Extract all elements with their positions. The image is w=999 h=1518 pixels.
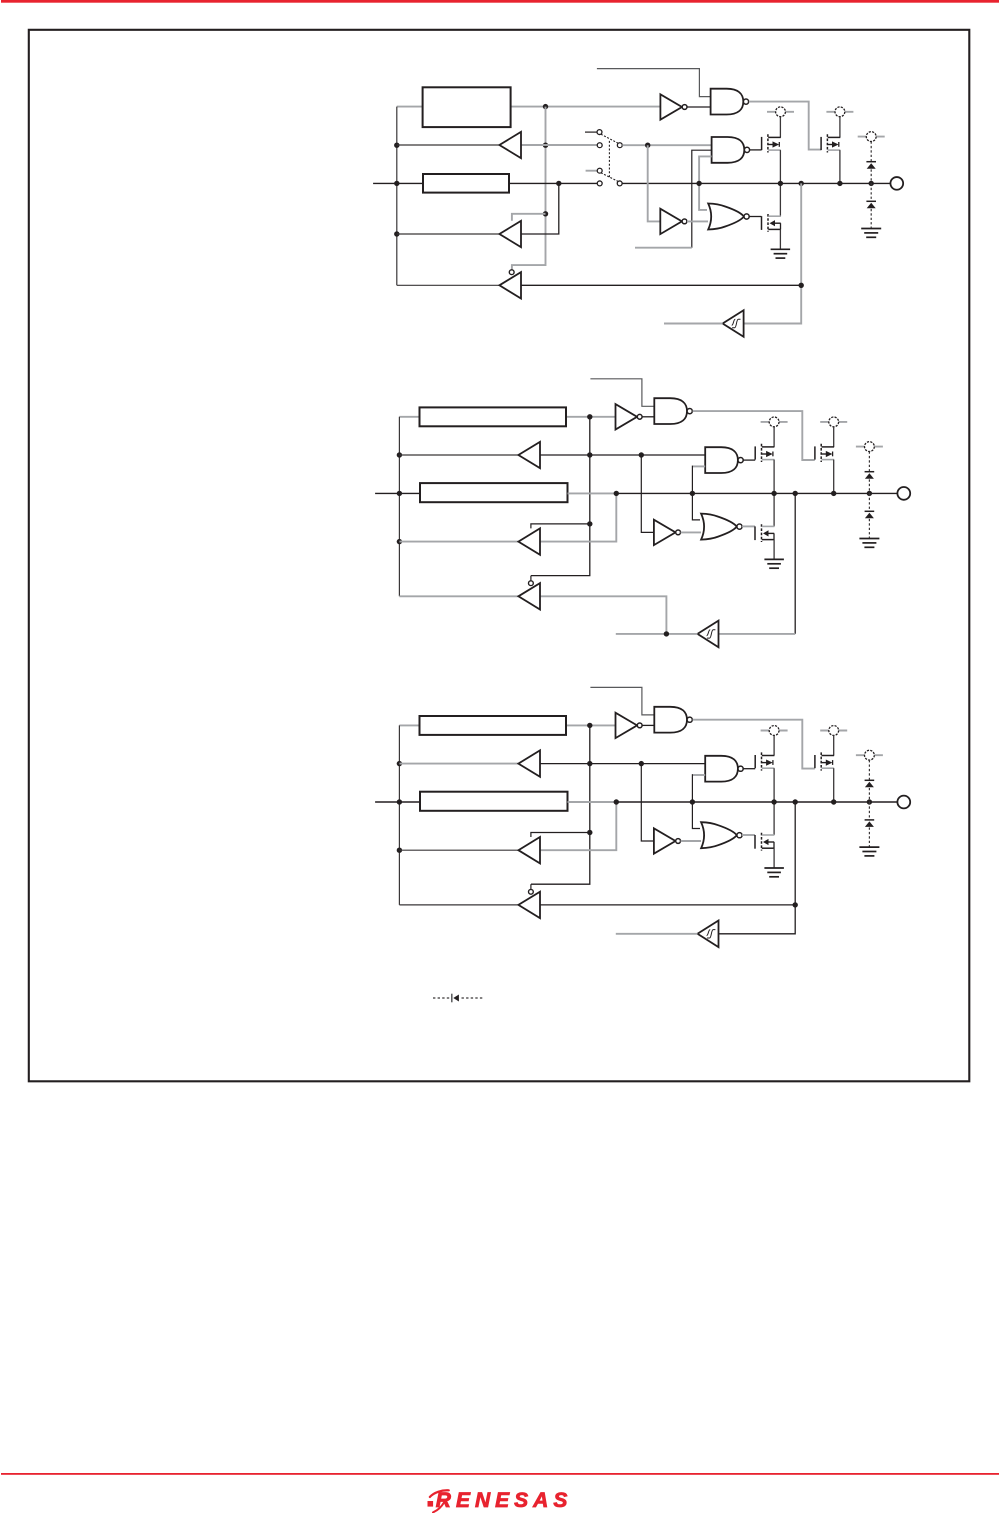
wire: C3 pMOS Q2 drain to node <box>833 768 835 802</box>
wire: C1 NAND2 input2 rail <box>692 150 712 248</box>
diode C3-Db (to GND) <box>865 820 875 827</box>
wire: C1 buffer1 input to switch <box>521 144 597 146</box>
node: C2 junction data/buffer2 tap <box>614 491 619 496</box>
wire: C2 output-enable line (top) <box>590 379 654 407</box>
wire: C1 buffer3 input (pin feedback) <box>521 284 801 286</box>
node: C3 left rail junction b <box>397 799 402 804</box>
wire: C1 buffer2 enable <box>512 214 546 221</box>
power symbol VCC C3-D (protection) <box>856 750 883 760</box>
input buffer C1-B2 <box>499 221 521 247</box>
pMOS transistor C3-Q1 <box>755 752 774 770</box>
wire: C1 NOR output to nMOS gate <box>749 216 761 218</box>
ground C2-D (protection) <box>859 539 879 548</box>
wire: C2 data line (left) <box>375 492 420 494</box>
pin pad C1 I/O port <box>890 177 903 190</box>
inverter C3-INV1 <box>616 713 643 738</box>
red footer rule <box>1 1473 999 1475</box>
wire: C3 inverter2 output to NOR <box>681 840 701 842</box>
wire: C3 feedback from node to schmitt <box>719 802 796 934</box>
wire dashed C1-D protection column <box>870 142 872 228</box>
wire: C3 internal bus vertical (left rail) <box>398 725 400 905</box>
analog switch C1-SWA <box>597 130 622 148</box>
wire: C3 data line (left) <box>375 801 420 803</box>
nMOS transistor C3-Q3 <box>755 833 774 851</box>
bubble: C1 buffer3 enable <box>509 270 514 275</box>
nMOS transistor C2-Q3 <box>755 524 774 542</box>
wire: C2 NOR input1 tap from data line <box>692 493 700 520</box>
wire: C2 data line to node <box>616 492 897 494</box>
pMOS transistor C3-Q2 <box>815 752 834 770</box>
inverter C2-INV2 <box>654 520 681 545</box>
node: C1 control rail junction a <box>543 143 548 148</box>
diode legend (parasitic diode symbol) <box>452 994 459 1003</box>
input buffer C1-B3 (gated) <box>499 272 521 298</box>
wire: C3 NOR output to nMOS gate <box>742 834 755 836</box>
wire: C1 switch link (dashed) <box>608 141 610 178</box>
schmitt trigger C3-ST <box>698 921 719 948</box>
pin pad C3 I/O port <box>897 796 910 809</box>
wire: C1 data line (black) <box>373 182 890 184</box>
wire: C2 buffer2 enable <box>531 524 590 529</box>
wire: C2 nMOS Q3 drain to node <box>773 493 775 526</box>
wire: C1 switch A common to NAND2 <box>622 144 711 146</box>
ground C1-GND1 <box>771 249 791 258</box>
inverter C3-INV2 <box>654 828 681 853</box>
wire: C2 buffer3 output <box>399 595 518 597</box>
wire: C3 NOR input1 tap from data line <box>692 802 700 829</box>
wire: C2 NAND2 output to pMOS Q1 gate <box>743 459 755 461</box>
node: C2 control rail junction b <box>587 452 592 457</box>
wire: C2 tap to buffer2 input <box>540 493 616 541</box>
wire: C3 control rail (black) <box>531 725 590 884</box>
diode C2-Da (to VCC) <box>865 472 875 479</box>
power symbol VCC C1-V1 <box>767 107 794 117</box>
NAND gate C2-G2 <box>705 447 743 473</box>
pMOS transistor C2-Q1 <box>755 444 774 462</box>
wire: C1 feedback from node to schmitt <box>744 183 802 323</box>
diode C1-Da (to VCC) <box>866 162 876 169</box>
wire: C2 NAND2 input2 tap from data line <box>691 466 693 494</box>
node: C3 output node junctions <box>690 799 872 804</box>
wire: C1 tap to inverter2 <box>648 145 661 221</box>
register C2-A <box>420 407 567 426</box>
register C1-B <box>423 174 509 193</box>
wire: C3 buffer1 output <box>399 763 518 765</box>
wire: C1 control rail (gray) with read-enable taps <box>512 107 546 270</box>
wire dashed C3-D protection column <box>868 760 870 846</box>
node: C2 output node junctions <box>690 491 872 496</box>
wire dashed C2-D protection column <box>868 452 870 538</box>
node: C3 left rail junction a <box>397 761 402 766</box>
wire: C1 schmitt output <box>664 323 723 325</box>
wire: C2 inverter1 to NAND1 <box>642 416 654 418</box>
wire: C3 buffer2 output <box>399 849 518 851</box>
wire: C1 buffer2 output <box>397 233 500 235</box>
input buffer C3-B2 <box>518 837 540 863</box>
wire: C3 NAND1 output to pMOS Q2 gate <box>693 720 815 769</box>
wire: C1 register A output line <box>397 106 661 108</box>
wire: C2 buffer1 input / NAND2 input1 <box>540 454 705 456</box>
wire: C2 control rail (black) <box>531 417 590 576</box>
pMOS transistor C1-Q2 <box>821 134 840 152</box>
node: C2 left rail junction c <box>397 539 402 544</box>
NOR gate C3-G3 <box>701 822 742 848</box>
wire: C1 internal bus vertical (left rail) <box>396 107 398 286</box>
wire: C3 NAND2 input2 tap from data line <box>691 774 693 802</box>
wire: C3 data line to node <box>616 801 897 803</box>
wire: C3 inverter1 to NAND1 <box>642 724 654 726</box>
bubble: C3 buffer3 enable <box>529 889 534 894</box>
register C3-A <box>420 716 567 735</box>
analog switch C1-SWB <box>597 168 622 186</box>
wire: C3 buffer3 output <box>399 904 518 906</box>
node: C1 junction data/buffer2 <box>556 181 561 186</box>
NAND gate C1-G1 <box>711 89 749 115</box>
inverter C2-INV1 <box>616 404 643 429</box>
node: C2 control rail junction a <box>587 414 592 419</box>
wire: C2 nMOS Q3 source to ground <box>773 540 775 559</box>
wire: C2 data line (mid gray) <box>568 492 617 494</box>
wire: C2 inverter2 input <box>641 455 654 532</box>
node: C3 junction feedback/buffer3 <box>793 902 798 907</box>
node: C1 junction switch common <box>645 143 650 148</box>
wire: C1 output-enable line (top) <box>597 69 711 97</box>
power symbol VCC C1-V2 <box>826 107 853 117</box>
node: C1 left rail junction a <box>394 143 399 148</box>
wire: C2 buffer3 enable <box>530 576 532 581</box>
node: C3 control rail junction c <box>587 830 592 835</box>
wire: C3 buffer3 input (pin feedback) <box>540 904 795 906</box>
node: C1 junction on register A line <box>543 104 548 109</box>
power symbol VCC C1-D (protection) <box>858 132 885 142</box>
NAND gate C3-G2 <box>705 756 743 782</box>
schmitt trigger C1-ST <box>723 310 744 337</box>
input buffer C3-B1 <box>518 750 540 776</box>
node: C1 feedback/buffer3 junction <box>799 283 804 288</box>
input buffer C2-B1 <box>518 442 540 468</box>
NOR gate C1-G3 <box>708 204 749 230</box>
wire: C1 inverter1 to NAND1 <box>687 106 711 108</box>
wire: C3 NAND2 input2 stub <box>692 774 705 776</box>
wire: C1 pMOS Q2 drain to node <box>839 150 841 183</box>
node: C2 left rail junction a <box>397 452 402 457</box>
node: C1 left rail junction b <box>394 181 399 186</box>
node: C1 output node junctions <box>696 181 874 186</box>
node: C3 control rail junction a <box>587 723 592 728</box>
power symbol VCC C3-V2 <box>820 726 847 736</box>
node: C3 junction on buffer1 line a <box>639 761 644 766</box>
pMOS transistor C1-Q1 <box>762 134 781 152</box>
wire: C3 pMOS Q1 source to VCC <box>773 735 775 755</box>
ground C3-GND1 <box>764 868 784 877</box>
pMOS transistor C2-Q2 <box>815 444 834 462</box>
Renesas logo <box>428 1489 573 1513</box>
wire: C2 buffer3 input from schmitt line <box>540 596 666 634</box>
wire: C2 pMOS Q2 drain to node <box>833 460 835 494</box>
input buffer C3-B3 (gated) <box>518 892 540 918</box>
wire: C3 buffer1 input / NAND2 input1 <box>540 763 705 765</box>
wire: C2 internal bus vertical (left rail) <box>398 417 400 597</box>
wire: C3 buffer2 enable <box>531 833 590 838</box>
inverter C1-INV2 <box>660 209 687 234</box>
red header rule <box>1 0 999 3</box>
register C1-A <box>423 87 511 127</box>
wire: C2 schmitt output <box>616 633 698 635</box>
wire: C3 pMOS Q1 drain to node <box>773 768 775 802</box>
wire: C2 buffer1 output <box>399 454 518 456</box>
wire: C1 pMOS Q2 source to VCC <box>839 117 841 138</box>
wire: C2 inverter2 output to NOR <box>681 531 701 533</box>
wire: C1 pin-read vertical to buffer2 <box>521 183 559 234</box>
diode C1-Db (to GND) <box>866 201 876 208</box>
svg-text:RENESAS: RENESAS <box>436 1489 573 1512</box>
wire: C2 pMOS Q1 drain to node <box>773 460 775 494</box>
wire: C1 nMOS Q3 drain to node <box>779 183 781 216</box>
node: C1 control rail junction b <box>543 211 548 216</box>
inverter C1-INV1 <box>660 94 687 119</box>
wire: C3 nMOS Q3 drain to node <box>773 802 775 835</box>
schmitt trigger C2-ST <box>698 621 719 648</box>
node: C3 left rail junction c <box>397 848 402 853</box>
wire: C2 schmitt input <box>719 633 796 635</box>
node: C2 control rail junction c <box>587 521 592 526</box>
wire: C1 pMOS Q1 source to VCC <box>779 117 781 138</box>
wire: C3 nMOS Q3 source to ground <box>773 848 775 867</box>
power symbol VCC C2-D (protection) <box>856 442 883 452</box>
power symbol VCC C2-V2 <box>820 417 847 427</box>
register C2-B <box>420 483 568 502</box>
wire: C1 nMOS Q3 source to ground <box>779 229 781 248</box>
NOR gate C2-G3 <box>701 514 742 540</box>
power symbol VCC C2-V1 <box>761 417 788 427</box>
input buffer C1-B1 <box>499 132 521 158</box>
wire: C3 output-enable line (top) <box>590 687 654 715</box>
wire: C3 register A output line <box>399 724 615 726</box>
ground C1-D (protection) <box>861 229 881 238</box>
wire: C3 buffer3 enable <box>530 884 532 889</box>
wire: C2 register A output line <box>399 416 615 418</box>
wire: C3 pMOS Q2 source to VCC <box>833 735 835 755</box>
wire: C2 feedback rail from node <box>794 493 796 634</box>
ground C2-GND1 <box>764 559 784 568</box>
register C3-B <box>420 792 568 811</box>
NAND gate C3-G1 <box>654 707 692 733</box>
wire: C3 NAND2 output to pMOS Q1 gate <box>743 768 755 770</box>
wire: C2 NAND2 input2 stub <box>692 465 705 467</box>
node: C1 left rail junction c <box>394 231 399 236</box>
wire: C1 NAND1 output to pMOS Q2 gate <box>749 102 821 150</box>
diode C3-Da (to VCC) <box>865 780 875 787</box>
node: C2 junction on buffer1 line a <box>639 452 644 457</box>
node: C3 junction data/buffer2 tap <box>614 799 619 804</box>
power symbol VCC C3-V1 <box>761 726 788 736</box>
input buffer C2-B3 (gated) <box>518 583 540 609</box>
bubble: C2 buffer3 enable <box>529 581 534 586</box>
wire: C2 pMOS Q2 source to VCC <box>833 427 835 447</box>
input buffer C2-B2 <box>518 528 540 554</box>
wire: C2 NAND1 output to pMOS Q2 gate <box>693 411 815 460</box>
wire: C1 buffer1 output <box>397 144 500 146</box>
ground C3-D (protection) <box>859 847 879 856</box>
wire: C1 NAND2 input3 tap from data line <box>699 156 712 183</box>
diode C2-Db (to GND) <box>865 511 875 518</box>
node: C3 control rail junction b <box>587 761 592 766</box>
wire: legend dashed line <box>433 997 483 999</box>
wire: C1 stub from NAND2 input rail <box>635 247 692 249</box>
wire: C3 data line (mid gray) <box>568 801 617 803</box>
wire: C3 tap to buffer2 input <box>540 802 616 850</box>
figure frame border <box>29 30 970 1082</box>
wire: C2 buffer2 output <box>399 541 518 543</box>
wire: C1 buffer3 output <box>397 284 500 286</box>
wire: C1 switch A upper lead <box>585 131 597 133</box>
wire: C3 inverter2 input <box>641 764 654 841</box>
node: C2 left rail junction b <box>397 491 402 496</box>
wire: C2 pMOS Q1 source to VCC <box>773 427 775 447</box>
wire: C1 NOR input1 tap from data line <box>699 183 707 210</box>
wire: C1 inverter2 output to NOR <box>687 220 708 222</box>
nMOS transistor C1-Q3 <box>762 214 781 232</box>
wire: C1 pMOS Q1 drain to node <box>779 150 781 183</box>
pin pad C2 I/O port <box>897 487 910 500</box>
NAND gate C2-G1 <box>654 398 692 424</box>
wire: C1 switch B upper lead <box>586 170 598 172</box>
NAND gate C1-G2 <box>712 137 750 163</box>
wire: C3 schmitt output <box>616 933 698 935</box>
node: C2 junction schmitt/buffer3 <box>664 631 669 636</box>
wire: C2 NOR output to nMOS gate <box>742 525 755 527</box>
wire: C1 NAND2 output to pMOS Q1 gate <box>749 149 762 151</box>
